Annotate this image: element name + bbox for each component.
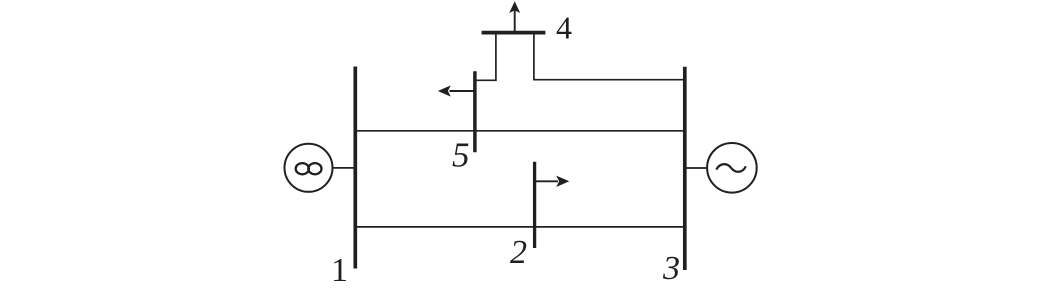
wire: bus4 right branch horizontal to bus3	[533, 79, 685, 81]
infinity symbol inside source	[296, 163, 322, 174]
svg-text:3: 3	[662, 250, 680, 287]
wire: bus4 left branch horizontal to bus5	[475, 79, 497, 81]
load arrow at bus 4 (up)	[509, 1, 520, 32]
svg-text:2: 2	[510, 234, 527, 271]
svg-text:5: 5	[452, 136, 470, 175]
wire: bus4 right branch vertical	[533, 33, 535, 80]
infinite bus source circle	[285, 144, 333, 192]
bus 4 bar	[482, 31, 546, 35]
wire: generator stub from bus3	[685, 167, 708, 169]
bus 1 bar	[353, 67, 357, 269]
wire: bottom transmission line bus1-bus3	[355, 226, 685, 228]
load arrow at bus 5 (left)	[438, 85, 475, 96]
bus 2 bar	[533, 162, 536, 248]
bus 3 bar	[683, 67, 687, 270]
load arrow at bus 2 (right)	[535, 176, 570, 187]
wire: bus4 left branch vertical	[495, 33, 497, 81]
sine symbol inside generator	[716, 164, 746, 172]
svg-text:1: 1	[331, 252, 348, 289]
generator circle	[707, 143, 757, 193]
svg-text:4: 4	[556, 10, 572, 46]
bus 5 bar	[473, 71, 477, 152]
wire: infinite source stub to bus1	[332, 167, 356, 169]
wire: top transmission line bus1-bus3	[355, 130, 685, 132]
